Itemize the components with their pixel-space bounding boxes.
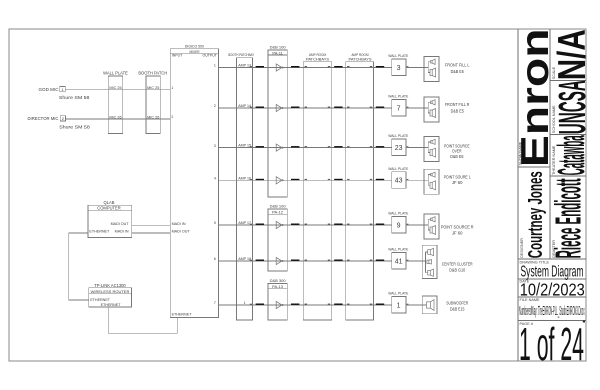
amp A5 (PA-12 ch1) — [268, 221, 287, 228]
amp A3 (PA-11 ch3) — [268, 144, 287, 151]
wire patchbay 1 to patchbay 2 (row 5) — [332, 224, 374, 226]
title block field SHOW NAME: Enron — [514, 28, 557, 167]
svg-text:Riece Endicott: Riece Endicott — [548, 178, 589, 258]
speaker SPK3 POINT SOURCE OVER — [424, 137, 470, 162]
svg-text:5: 5 — [214, 221, 216, 225]
mixer output pin 6 — [214, 257, 216, 261]
wire patchbay 2 to wall plate (row 1) — [374, 66, 392, 68]
svg-text:WALL PLATE: WALL PLATE — [103, 70, 128, 75]
amp A4 (PA-11 ch4) — [268, 177, 287, 184]
amp A1 (PA-11 ch1) — [268, 64, 287, 71]
wire amp to amp room patchbay 1 (row 5) — [287, 224, 331, 226]
wire booth patchbay to amp (row 1) — [253, 66, 268, 68]
svg-text:ETHERNET: ETHERNET — [89, 229, 110, 233]
svg-text:3: 3 — [397, 65, 401, 72]
svg-text:4: 4 — [214, 177, 216, 181]
wire wall plate 41 to speaker — [406, 260, 424, 262]
svg-text:ETHERNET: ETHERNET — [172, 313, 193, 317]
svg-text:FRONT FILL R: FRONT FILL R — [445, 102, 470, 107]
svg-text:AMP 18: AMP 18 — [238, 257, 251, 261]
svg-text:1: 1 — [244, 301, 246, 305]
wire patchbay 1 to patchbay 2 (row 4) — [332, 179, 374, 181]
wire wall plate 23 to speaker — [406, 147, 424, 149]
wall plate 43 (row 4) — [388, 167, 408, 189]
svg-text:FRONT FILL L: FRONT FILL L — [445, 62, 470, 67]
wire wall plate 43 to speaker — [406, 179, 424, 181]
svg-text:Catawba: Catawba — [551, 135, 593, 175]
svg-text:DIRECTOR MIC: DIRECTOR MIC — [28, 116, 59, 121]
title block field THEATER NAME: Catawba — [551, 135, 593, 175]
svg-text:D&B 100: D&B 100 — [270, 203, 287, 208]
svg-text:7: 7 — [397, 105, 401, 112]
amplifier rack U4 D&B 300 PA-13 — [268, 278, 287, 320]
amp A7 (PA-13 ch1) — [268, 301, 287, 308]
svg-text:INPUT: INPUT — [172, 53, 183, 57]
wall plate 3 (row 1) — [388, 54, 408, 76]
svg-text:System Diagram: System Diagram — [521, 263, 584, 280]
svg-text:DIGICO 509: DIGICO 509 — [185, 45, 204, 49]
svg-text:WALL PLATE: WALL PLATE — [388, 54, 408, 58]
title block field FILE NAME — [519, 298, 585, 318]
svg-text:PA-12: PA-12 — [272, 210, 284, 215]
wire amp to amp room patchbay 1 (row 4) — [287, 179, 331, 181]
svg-text:Shure SM 58: Shure SM 58 — [59, 95, 90, 100]
svg-text:FILE NAME: FILE NAME — [520, 298, 541, 302]
wire patchbay 2 to wall plate (row 7) — [374, 304, 392, 306]
svg-text:10/2/2023: 10/2/2023 — [520, 280, 585, 300]
svg-text:43: 43 — [395, 178, 403, 185]
svg-text:OUTPUT: OUTPUT — [203, 53, 218, 57]
svg-text:AMP 16: AMP 16 — [238, 176, 251, 180]
svg-text:SUBWOOFER: SUBWOOFER — [446, 300, 468, 305]
mixer MADI IN pin — [172, 222, 186, 226]
svg-text:AMP 13: AMP 13 — [238, 64, 251, 68]
svg-text:1: 1 — [214, 64, 216, 68]
svg-text:2: 2 — [214, 104, 216, 108]
svg-text:PA-11: PA-11 — [272, 50, 283, 55]
svg-text:41: 41 — [395, 258, 403, 265]
title block field SCALE: N/A — [551, 29, 594, 80]
mixer output pin 2 — [214, 104, 216, 108]
wall plate 41 (row 6) — [388, 248, 408, 270]
svg-text:OVER: OVER — [452, 149, 462, 154]
svg-text:BOOTH PATCHBAY: BOOTH PATCHBAY — [228, 53, 254, 57]
wire booth patchbay to amp (row 3) — [253, 146, 268, 148]
wire booth patchbay to amp (row 4) — [253, 179, 268, 181]
mixer input pin 1 — [171, 86, 173, 90]
wire patchbay 1 to patchbay 2 (row 7) — [332, 304, 374, 306]
title block field DRAWING TITLE: System Diagram — [520, 261, 584, 281]
title block field DATE: 10/2/2023 — [520, 280, 585, 300]
mixer ETHERNET pin — [172, 313, 193, 317]
svg-text:1: 1 — [171, 86, 173, 90]
title block field DRAFTER: Riece Endicott — [548, 178, 589, 258]
wire QLAB MADI OUT to mixer MADI IN — [132, 225, 171, 227]
mixer output pin 5 — [214, 221, 216, 225]
wire patchbay 1 to patchbay 2 (row 2) — [332, 107, 374, 109]
svg-text:AMP ROOM: AMP ROOM — [352, 53, 369, 57]
svg-text:AMP ROOM: AMP ROOM — [309, 53, 326, 57]
svg-text:ETHERNET: ETHERNET — [101, 303, 122, 307]
svg-text:D&B E8: D&B E8 — [450, 154, 464, 159]
speaker SPK1 FRONT FILL L — [424, 57, 470, 82]
wire wall plate 9 to speaker — [406, 224, 424, 226]
wire mixer output 3 to booth patchbay — [218, 147, 252, 149]
speaker SPK4 POINT SOURCE L — [424, 169, 471, 194]
microphone MIC2 (DIRECTOR MIC) — [28, 116, 91, 130]
svg-text:TP-LINK AC1300: TP-LINK AC1300 — [94, 283, 126, 288]
svg-text:D&B 100: D&B 100 — [270, 44, 287, 49]
svg-text:AMP 15: AMP 15 — [238, 144, 251, 148]
speaker SPK2 FRONT FILL R — [424, 97, 469, 122]
mixer output pin 1 — [214, 64, 216, 68]
amp room patchbay 1 — [303, 53, 331, 320]
wire amp to amp room patchbay 1 (row 7) — [287, 304, 331, 306]
amplifier rack U2 D&B 100 PA-11 — [268, 44, 287, 197]
svg-text:N/A: N/A — [551, 29, 594, 80]
wire booth patchbay to amp (row 6) — [253, 260, 268, 262]
wall plate 9 (row 5) — [388, 212, 408, 234]
svg-text:WALL PLATE: WALL PLATE — [388, 167, 408, 171]
svg-text:D&B G10: D&B G10 — [449, 267, 466, 272]
wall plate (mic) — [103, 70, 128, 133]
svg-text:PATCHBAYS: PATCHBAYS — [349, 58, 373, 62]
svg-text:D&B E5: D&B E5 — [451, 69, 465, 74]
svg-text:1 of 24: 1 of 24 — [519, 318, 584, 370]
wire booth patchbay to amp (row 7) — [253, 304, 268, 306]
svg-text:Shure SM 58: Shure SM 58 — [59, 124, 90, 129]
svg-text:2: 2 — [171, 115, 173, 119]
svg-text:UNCSA: UNCSA — [552, 80, 594, 134]
wire amp to amp room patchbay 1 (row 6) — [287, 260, 331, 262]
file name end mark — [583, 321, 585, 323]
svg-text:MIC 25: MIC 25 — [147, 86, 159, 90]
title block field SCHOOL NAME: UNCSA — [552, 80, 594, 134]
wire patchbay 1 to patchbay 2 (row 3) — [332, 146, 374, 148]
svg-text:JF 60: JF 60 — [452, 180, 463, 185]
wire patchbay 2 to wall plate (row 3) — [374, 146, 392, 148]
svg-text:COMPUTER: COMPUTER — [97, 205, 120, 210]
wire router ETHERNET to mixer ETHERNET — [108, 307, 177, 333]
wire wall plate 1 to speaker — [406, 304, 424, 306]
wire mixer output 2 to booth patchbay — [218, 107, 252, 109]
wall plate 23 (row 3) — [388, 134, 408, 156]
wire patchbay 2 to wall plate (row 6) — [374, 260, 392, 262]
svg-text:AMP 14: AMP 14 — [238, 104, 251, 108]
mixer input pin 2 — [171, 115, 173, 119]
svg-text:WALL PLATE: WALL PLATE — [388, 212, 408, 216]
svg-text:NumberedWay: TheENRON-PLL_Stud: NumberedWay: TheENRON-PLL_StudioENRON3.D… — [519, 303, 585, 318]
svg-text:MADI IN: MADI IN — [115, 229, 129, 233]
wire amp to amp room patchbay 1 (row 1) — [287, 66, 331, 68]
speaker SPK5 POINT SOURCE R — [424, 214, 474, 239]
svg-text:PA-13: PA-13 — [272, 284, 284, 289]
amp A2 (PA-11 ch2) — [268, 104, 287, 111]
wire patchbay 1 to patchbay 2 (row 1) — [332, 66, 374, 68]
svg-text:CENTER CLUSTER: CENTER CLUSTER — [442, 261, 473, 266]
mixer output pin 3 — [214, 144, 216, 148]
svg-text:MIC 25: MIC 25 — [109, 86, 121, 90]
computer U5 QLAB — [88, 200, 132, 237]
svg-text:AMP 17: AMP 17 — [238, 221, 251, 225]
wire mic1 to mixer input 1 — [65, 89, 170, 91]
svg-text:6: 6 — [214, 257, 216, 261]
amplifier rack U3 D&B 100 PA-12 — [268, 203, 287, 271]
mixer U1 DIGICO 509 — [170, 45, 218, 318]
amp A6 (PA-12 ch2) — [268, 257, 287, 264]
mixer output pin 7 — [214, 301, 216, 305]
wall plate 1 (row 7) — [388, 292, 408, 314]
svg-text:GOD MIC: GOD MIC — [39, 87, 59, 92]
svg-text:D&B E15: D&B E15 — [450, 306, 465, 311]
wire booth patchbay to amp (row 5) — [253, 224, 268, 226]
svg-text:9: 9 — [397, 222, 401, 229]
svg-text:1: 1 — [397, 302, 401, 309]
title block grid — [518, 29, 586, 361]
svg-text:WALL PLATE: WALL PLATE — [388, 95, 408, 99]
wire amp to amp room patchbay 1 (row 3) — [287, 146, 331, 148]
svg-text:7: 7 — [214, 301, 216, 305]
wire mixer output 4 to booth patchbay — [218, 179, 252, 181]
wire patchbay 2 to wall plate (row 2) — [374, 107, 392, 109]
router U6 TP-LINK AC1300 — [89, 283, 132, 307]
svg-text:MIXER: MIXER — [190, 50, 200, 54]
mixer MADI OUT pin — [172, 229, 191, 233]
mixer output pin 4 — [214, 177, 216, 181]
svg-text:3: 3 — [214, 144, 216, 148]
svg-text:D&B 300: D&B 300 — [270, 278, 287, 283]
booth patchbay — [228, 53, 254, 320]
svg-text:POINT SOURE L: POINT SOURE L — [444, 175, 472, 180]
svg-text:MIC 26: MIC 26 — [147, 115, 159, 119]
wire wall plate 3 to speaker — [406, 67, 424, 69]
svg-text:WALL PLATE: WALL PLATE — [388, 248, 408, 252]
svg-text:MADI OUT: MADI OUT — [172, 229, 191, 233]
wire amp to amp room patchbay 1 (row 2) — [287, 107, 331, 109]
wire QLAB ETHERNET to router — [69, 233, 89, 300]
svg-text:WIRELESS ROUTER: WIRELESS ROUTER — [91, 289, 130, 294]
amp room patchbay 2 — [346, 53, 374, 320]
svg-text:D&B E5: D&B E5 — [451, 109, 465, 114]
wire mixer MADI OUT to QLAB MADI IN — [132, 232, 171, 234]
title block field PAGE #: 1 of 24 — [519, 318, 584, 370]
wire mixer output 7 to booth patchbay — [218, 304, 252, 306]
svg-text:BOOTH PATCH: BOOTH PATCH — [138, 70, 167, 75]
booth patch panel (mic) — [138, 70, 167, 133]
svg-text:WALL PLATE: WALL PLATE — [388, 134, 408, 138]
wire mixer output 6 to booth patchbay — [218, 260, 252, 262]
wire patchbay 2 to wall plate (row 4) — [374, 179, 392, 181]
wire mixer output 5 to booth patchbay — [218, 224, 252, 226]
speaker SPK6 CENTER CLUSTER — [422, 245, 472, 278]
svg-text:POINT SOURCE R: POINT SOURCE R — [441, 225, 474, 230]
title block field DESIGNER: Courtney Jones — [520, 171, 547, 258]
svg-text:MADI IN: MADI IN — [172, 222, 186, 226]
wire mixer output 1 to booth patchbay — [218, 67, 252, 69]
wire wall plate 7 to speaker — [406, 107, 424, 109]
svg-text:MIC 26: MIC 26 — [109, 115, 121, 119]
wire patchbay 2 to wall plate (row 5) — [374, 224, 392, 226]
svg-text:ETHERNET: ETHERNET — [90, 298, 111, 302]
wire mic2 to mixer input 2 — [66, 118, 171, 120]
svg-text:PATCHBAYS: PATCHBAYS — [306, 58, 330, 62]
svg-text:WALL PLATE: WALL PLATE — [388, 292, 408, 296]
svg-text:MADI OUT: MADI OUT — [111, 222, 130, 226]
microphone MIC1 (GOD MIC) — [39, 87, 90, 100]
wire patchbay 1 to patchbay 2 (row 6) — [332, 260, 374, 262]
wire booth patchbay to amp (row 2) — [253, 107, 268, 109]
wall plate 7 (row 2) — [388, 95, 408, 117]
svg-text:23: 23 — [395, 145, 403, 152]
svg-text:Courtney Jones: Courtney Jones — [524, 171, 547, 258]
speaker SPK7 SUBWOOFER — [422, 296, 468, 314]
svg-text:JF 60: JF 60 — [452, 231, 463, 236]
